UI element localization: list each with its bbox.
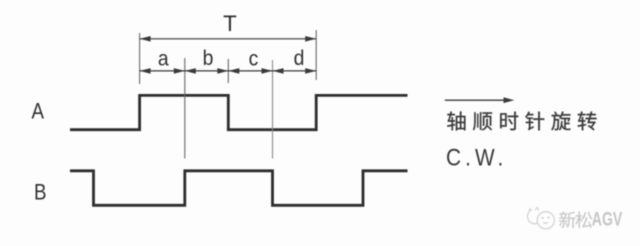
- svg-text:b: b: [203, 46, 214, 70]
- waveform A trace: [70, 95, 408, 129]
- svg-text:T: T: [223, 11, 237, 36]
- dimension line T with arrowheads: [140, 38, 317, 40]
- extension line at A rising edge (left T boundary): [139, 33, 141, 84]
- extension line at B falling edge (c/d boundary): [272, 60, 274, 159]
- watermark logo (robot face): [528, 208, 555, 229]
- svg-text:C.W.: C.W.: [446, 143, 507, 171]
- extension line at A second rising edge (right T boundary): [315, 30, 317, 80]
- clockwise direction arrow: [445, 99, 506, 101]
- svg-text:d: d: [294, 46, 305, 70]
- svg-text:AGV: AGV: [592, 208, 623, 230]
- svg-text:B: B: [34, 180, 46, 205]
- svg-text:A: A: [31, 99, 44, 124]
- svg-text:a: a: [158, 47, 169, 71]
- text 轴顺时针旋转 (shaft rotates clockwise): [447, 111, 596, 130]
- watermark text 新松AGV: [559, 208, 623, 230]
- extension line at B rising edge (a/b boundary): [184, 58, 186, 159]
- extension line at A falling edge (b/c boundary): [227, 59, 229, 83]
- svg-text:c: c: [249, 47, 259, 71]
- dimension line a/b/c/d with arrowheads: [140, 70, 317, 72]
- waveform B trace: [70, 171, 408, 206]
